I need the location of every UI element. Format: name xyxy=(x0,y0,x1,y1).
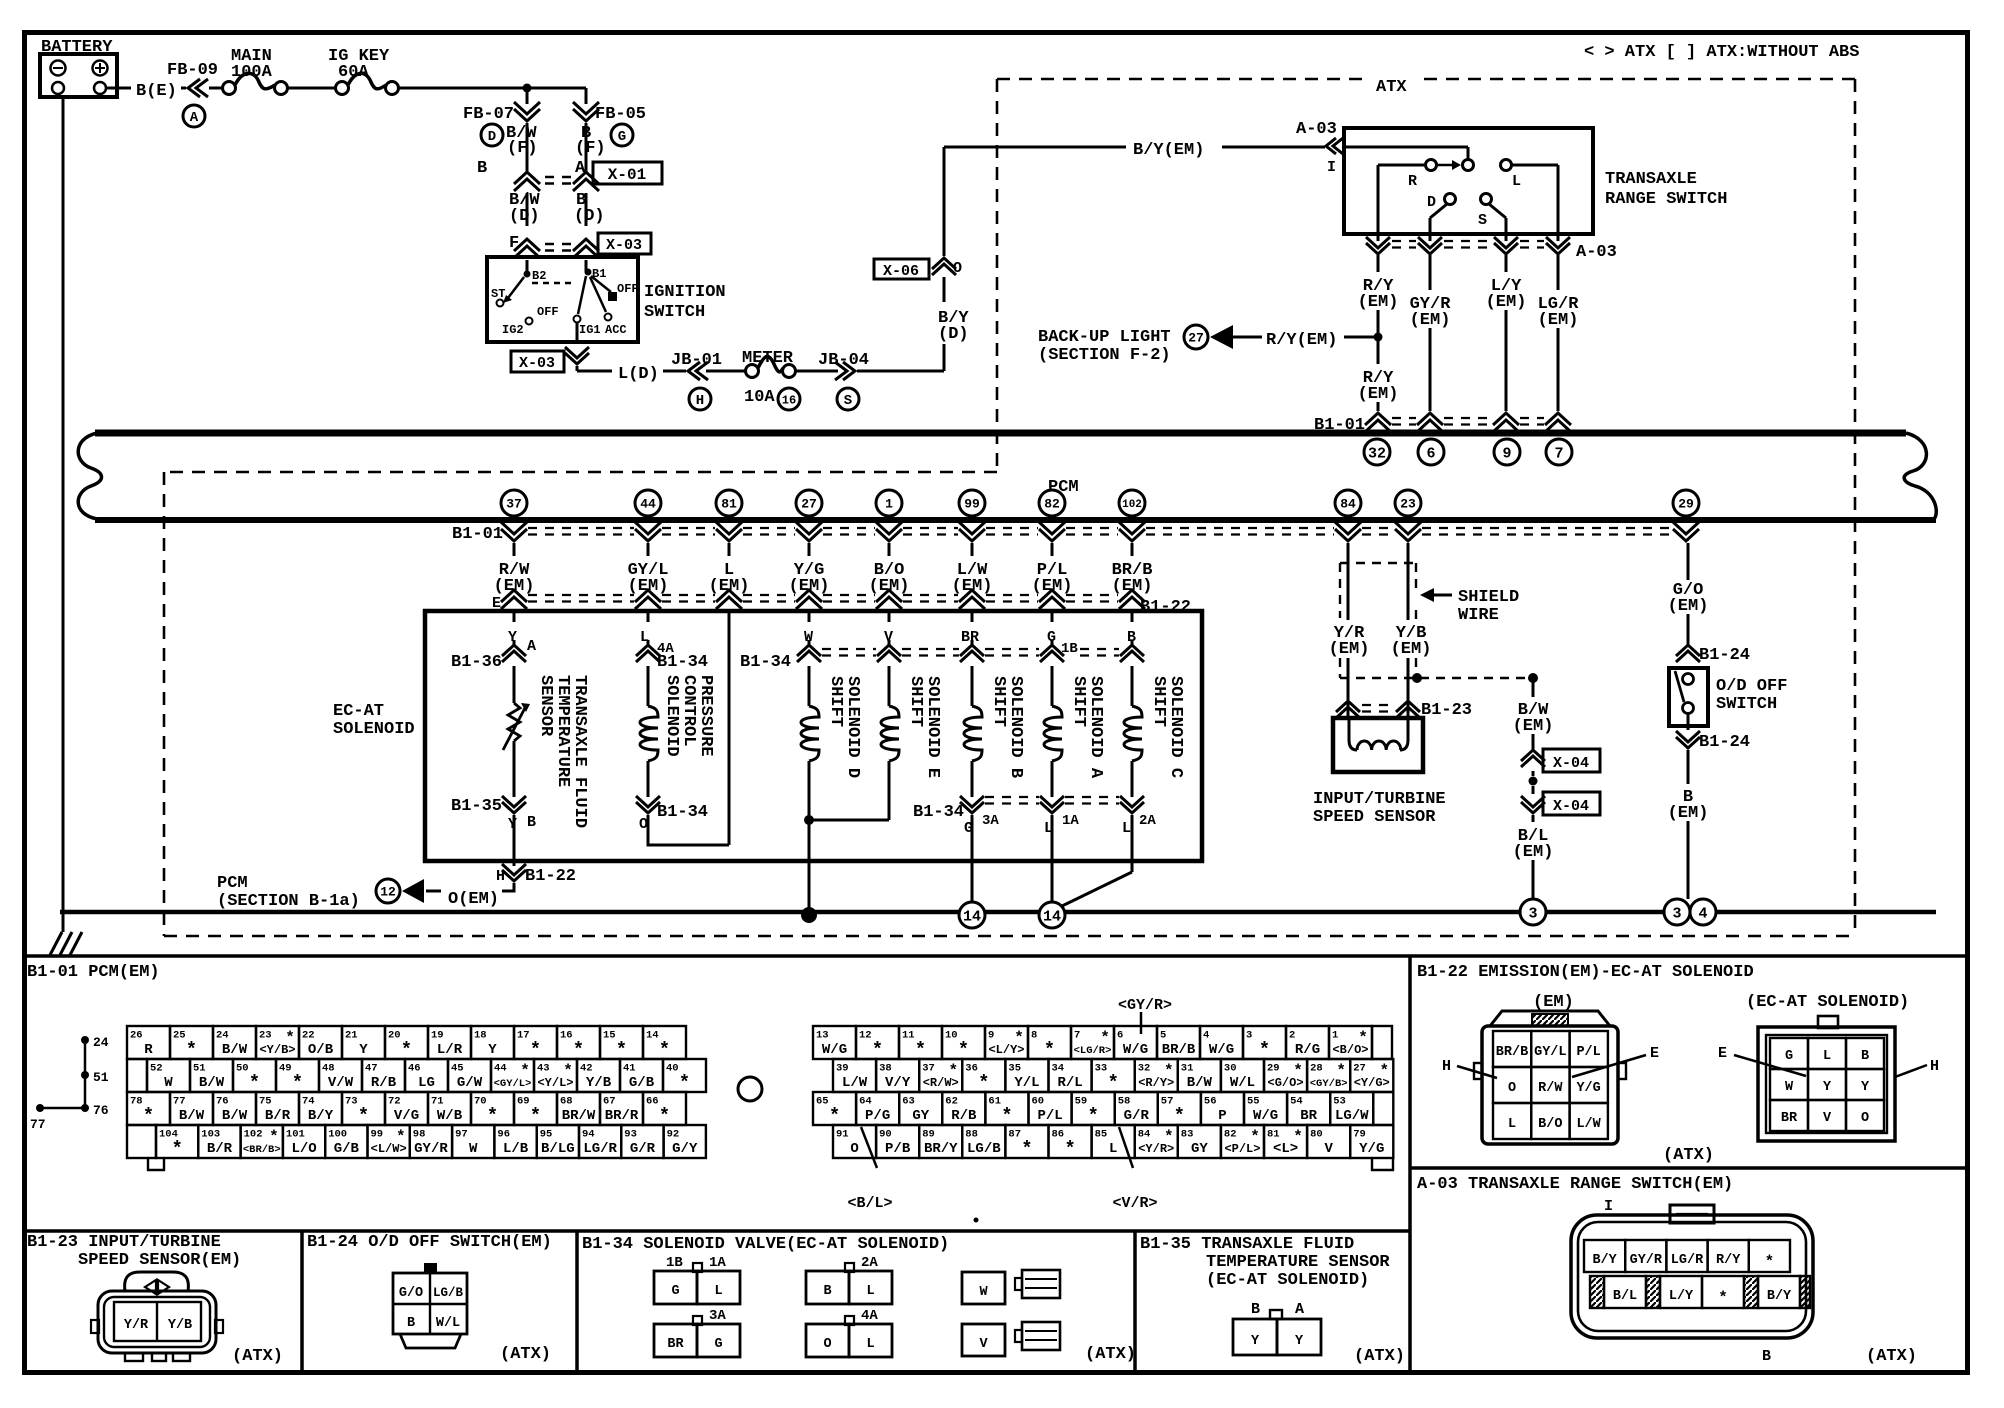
svg-text:*: * xyxy=(401,1039,412,1061)
svg-text:32: 32 xyxy=(1368,445,1386,462)
svg-text:TRANSAXLE: TRANSAXLE xyxy=(1605,170,1697,189)
svg-text:O(EM): O(EM) xyxy=(448,890,499,909)
svg-text:49: 49 xyxy=(279,1063,292,1075)
svg-text:32: 32 xyxy=(1138,1063,1151,1075)
svg-text:68: 68 xyxy=(560,1096,573,1108)
svg-text:B1-22 EMISSION(EM)-EC-AT SOLEN: B1-22 EMISSION(EM)-EC-AT SOLENOID xyxy=(1417,963,1754,982)
svg-text:98: 98 xyxy=(413,1129,426,1141)
svg-text:66: 66 xyxy=(646,1096,659,1108)
svg-text:29: 29 xyxy=(1678,497,1694,512)
svg-text:H: H xyxy=(696,393,704,409)
svg-text:G/R: G/R xyxy=(1124,1108,1150,1124)
svg-text:B1-34 SOLENOID VALVE(EC-AT SOL: B1-34 SOLENOID VALVE(EC-AT SOLENOID) xyxy=(582,1235,949,1254)
svg-text:L: L xyxy=(1512,173,1521,190)
svg-text:3: 3 xyxy=(1672,905,1681,922)
svg-text:*: * xyxy=(487,1105,498,1127)
svg-text:Y: Y xyxy=(1295,1334,1304,1349)
svg-text:R/L: R/L xyxy=(1057,1075,1082,1091)
svg-text:1: 1 xyxy=(885,497,893,512)
svg-text:92: 92 xyxy=(667,1129,680,1141)
svg-text:V: V xyxy=(979,1337,988,1352)
svg-text:*: * xyxy=(573,1039,584,1061)
svg-text:17: 17 xyxy=(517,1030,530,1042)
svg-text:<B/O>: <B/O> xyxy=(1332,1043,1368,1057)
svg-text:L/O: L/O xyxy=(291,1141,316,1157)
svg-text:24: 24 xyxy=(216,1030,229,1042)
svg-text:OFF: OFF xyxy=(537,305,559,319)
svg-text:LG/B: LG/B xyxy=(967,1141,1001,1157)
svg-text:D: D xyxy=(488,129,496,145)
svg-text:27: 27 xyxy=(1353,1063,1366,1075)
svg-text:*: * xyxy=(1044,1039,1055,1061)
svg-text:LG/R: LG/R xyxy=(583,1141,617,1157)
svg-text:57: 57 xyxy=(1161,1096,1174,1108)
svg-text:E: E xyxy=(1650,1045,1659,1062)
svg-text:(EM): (EM) xyxy=(1329,640,1370,659)
svg-text:L: L xyxy=(1823,1049,1831,1064)
svg-text:39: 39 xyxy=(836,1063,849,1075)
svg-text:*: * xyxy=(915,1039,926,1061)
svg-text:B/W: B/W xyxy=(222,1042,248,1058)
svg-text:9: 9 xyxy=(1502,445,1511,462)
svg-text:(EM): (EM) xyxy=(709,577,750,596)
svg-text:(EM): (EM) xyxy=(1358,385,1399,404)
svg-text:G: G xyxy=(714,1337,722,1352)
svg-text:<GY/L>: <GY/L> xyxy=(494,1078,532,1090)
svg-text:B/Y(EM): B/Y(EM) xyxy=(1133,141,1204,160)
svg-text:(EM): (EM) xyxy=(1513,717,1554,736)
svg-text:R/Y: R/Y xyxy=(1716,1253,1741,1268)
svg-text:B1-34: B1-34 xyxy=(913,803,964,822)
svg-text:40: 40 xyxy=(666,1063,679,1075)
svg-text:FB-09: FB-09 xyxy=(167,61,218,80)
svg-text:LG: LG xyxy=(418,1075,435,1091)
svg-text:B/Y: B/Y xyxy=(1767,1289,1792,1304)
svg-text:*: * xyxy=(1064,1138,1075,1160)
svg-text:29: 29 xyxy=(1267,1063,1280,1075)
svg-text:B(E): B(E) xyxy=(136,82,177,101)
svg-text:B: B xyxy=(527,814,536,831)
svg-text:10A: 10A xyxy=(744,388,775,407)
svg-text:85: 85 xyxy=(1095,1129,1108,1141)
svg-text:L: L xyxy=(1122,820,1131,837)
svg-text:L(D): L(D) xyxy=(618,365,659,384)
svg-text:D: D xyxy=(1427,194,1436,211)
svg-text:R/B: R/B xyxy=(951,1108,977,1124)
svg-text:81: 81 xyxy=(721,497,737,512)
svg-text:<Y/L>: <Y/L> xyxy=(537,1076,573,1090)
svg-text:(EM): (EM) xyxy=(869,577,910,596)
svg-text:O: O xyxy=(1861,1111,1869,1126)
svg-text:*: * xyxy=(1718,1289,1728,1307)
svg-text:9: 9 xyxy=(988,1030,994,1042)
svg-text:<Y/G>: <Y/G> xyxy=(1354,1076,1390,1090)
svg-text:37: 37 xyxy=(506,497,522,512)
svg-text:7: 7 xyxy=(1074,1030,1080,1042)
svg-text:Y: Y xyxy=(359,1042,368,1058)
svg-text:(EM): (EM) xyxy=(1112,577,1153,596)
svg-text:SWITCH: SWITCH xyxy=(1716,695,1777,714)
svg-text:70: 70 xyxy=(474,1096,487,1108)
svg-text:6: 6 xyxy=(1426,445,1435,462)
svg-text:Y/G: Y/G xyxy=(1576,1081,1600,1096)
svg-text:44: 44 xyxy=(640,497,656,512)
svg-text:B/R: B/R xyxy=(265,1108,291,1124)
svg-text:27: 27 xyxy=(801,497,817,512)
svg-text:(EC-AT SOLENOID): (EC-AT SOLENOID) xyxy=(1746,993,1909,1012)
svg-text:*: * xyxy=(1259,1039,1270,1061)
svg-text:21: 21 xyxy=(345,1030,358,1042)
svg-text:(D): (D) xyxy=(509,207,540,226)
svg-text:B1-34: B1-34 xyxy=(740,653,791,672)
svg-text:G/B: G/B xyxy=(629,1075,655,1091)
svg-text:4: 4 xyxy=(1203,1030,1209,1042)
svg-text:<L/Y>: <L/Y> xyxy=(988,1043,1024,1057)
svg-text:76: 76 xyxy=(216,1096,229,1108)
svg-text:(EM): (EM) xyxy=(1410,311,1451,330)
svg-text:W/B: W/B xyxy=(437,1108,463,1124)
svg-text:B/O: B/O xyxy=(1538,1117,1562,1132)
svg-text:38: 38 xyxy=(879,1063,892,1075)
svg-text:10: 10 xyxy=(945,1030,958,1042)
svg-text:B: B xyxy=(1762,1348,1771,1365)
svg-text:B2: B2 xyxy=(532,269,546,283)
svg-text:63: 63 xyxy=(902,1096,915,1108)
svg-text:(EM): (EM) xyxy=(1513,843,1554,862)
svg-text:BR: BR xyxy=(1300,1108,1317,1124)
svg-text:14: 14 xyxy=(963,908,981,925)
svg-text:78: 78 xyxy=(130,1096,143,1108)
svg-text:58: 58 xyxy=(1118,1096,1131,1108)
svg-text:V/G: V/G xyxy=(394,1108,419,1124)
svg-text:B/W: B/W xyxy=(199,1075,225,1091)
svg-text:R/W: R/W xyxy=(1538,1081,1563,1096)
svg-text:B: B xyxy=(1251,1301,1260,1318)
svg-text:97: 97 xyxy=(455,1129,468,1141)
svg-text:<V/R>: <V/R> xyxy=(1112,1195,1157,1212)
svg-text:*: * xyxy=(530,1105,541,1127)
svg-text:43: 43 xyxy=(537,1063,550,1075)
svg-text:LG/R: LG/R xyxy=(1671,1253,1704,1268)
svg-text:22: 22 xyxy=(302,1030,315,1042)
svg-text:(ATX): (ATX) xyxy=(500,1345,551,1364)
svg-text:V: V xyxy=(1324,1141,1333,1157)
svg-text:A-03: A-03 xyxy=(1296,120,1337,139)
svg-text:42: 42 xyxy=(580,1063,593,1075)
svg-text:B: B xyxy=(477,159,487,178)
svg-text:H: H xyxy=(1930,1058,1939,1075)
svg-text:2: 2 xyxy=(1289,1030,1295,1042)
svg-text:4A: 4A xyxy=(861,1308,878,1324)
svg-text:46: 46 xyxy=(408,1063,421,1075)
svg-text:20: 20 xyxy=(388,1030,401,1042)
svg-text:P/L: P/L xyxy=(1576,1045,1600,1060)
svg-text:P/G: P/G xyxy=(865,1108,890,1124)
svg-text:33: 33 xyxy=(1095,1063,1108,1075)
svg-text:(D): (D) xyxy=(938,325,969,344)
svg-text:O: O xyxy=(823,1337,831,1352)
svg-text:*: * xyxy=(530,1039,541,1061)
svg-text:67: 67 xyxy=(603,1096,616,1108)
svg-text:*: * xyxy=(292,1072,303,1094)
svg-text:95: 95 xyxy=(540,1129,553,1141)
svg-text:BR/R: BR/R xyxy=(605,1108,639,1124)
svg-text:59: 59 xyxy=(1075,1096,1088,1108)
svg-text:B/L: B/L xyxy=(1613,1289,1637,1304)
svg-text:*: * xyxy=(1021,1138,1032,1160)
svg-text:1A: 1A xyxy=(709,1255,726,1271)
svg-text:*: * xyxy=(143,1105,154,1127)
svg-text:L: L xyxy=(1109,1141,1117,1157)
svg-text:W/G: W/G xyxy=(1123,1042,1148,1058)
svg-text:INPUT/TURBINE: INPUT/TURBINE xyxy=(1313,790,1446,809)
svg-text:A: A xyxy=(527,638,536,655)
svg-text:28: 28 xyxy=(1310,1063,1323,1075)
svg-text:96: 96 xyxy=(497,1129,510,1141)
svg-text:*: * xyxy=(616,1039,627,1061)
svg-text:77: 77 xyxy=(30,1117,46,1132)
svg-text:34: 34 xyxy=(1052,1063,1065,1075)
svg-text:BR/W: BR/W xyxy=(562,1108,596,1124)
svg-text:Y: Y xyxy=(488,1042,497,1058)
svg-text:31: 31 xyxy=(1181,1063,1194,1075)
svg-text:*: * xyxy=(1087,1105,1098,1127)
svg-text:(F): (F) xyxy=(575,139,606,158)
svg-text:54: 54 xyxy=(1290,1096,1303,1108)
svg-text:(EC-AT SOLENOID): (EC-AT SOLENOID) xyxy=(1206,1271,1369,1290)
svg-text:(ATX): (ATX) xyxy=(232,1347,283,1366)
svg-text:23: 23 xyxy=(1400,497,1416,512)
svg-text:SWITCH: SWITCH xyxy=(644,303,705,322)
svg-text:BR: BR xyxy=(1781,1111,1798,1126)
svg-text:R/G: R/G xyxy=(1295,1042,1320,1058)
svg-text:*: * xyxy=(659,1105,670,1127)
svg-text:93: 93 xyxy=(624,1129,637,1141)
svg-text:G/R: G/R xyxy=(630,1141,656,1157)
svg-text:(SECTION B-1a): (SECTION B-1a) xyxy=(217,892,360,911)
svg-text:103: 103 xyxy=(201,1129,220,1141)
svg-text:<GY/B>: <GY/B> xyxy=(1310,1078,1348,1090)
svg-text:GY/R: GY/R xyxy=(414,1141,448,1157)
svg-text:87: 87 xyxy=(1008,1129,1021,1141)
svg-text:62: 62 xyxy=(945,1096,958,1108)
svg-text:O: O xyxy=(850,1141,858,1157)
svg-text:A-03 TRANSAXLE RANGE SWITCH(EM: A-03 TRANSAXLE RANGE SWITCH(EM) xyxy=(1417,1175,1733,1194)
svg-text:V/Y: V/Y xyxy=(885,1075,911,1091)
svg-text:60: 60 xyxy=(1032,1096,1045,1108)
svg-text:B1-34: B1-34 xyxy=(657,653,708,672)
svg-text:1A: 1A xyxy=(1062,813,1079,829)
svg-text:V/W: V/W xyxy=(328,1075,354,1091)
svg-text:11: 11 xyxy=(902,1030,915,1042)
svg-text:I: I xyxy=(1604,1198,1613,1215)
svg-text:<B/L>: <B/L> xyxy=(847,1195,892,1212)
svg-text:7: 7 xyxy=(1554,445,1563,462)
svg-text:(EM): (EM) xyxy=(1358,293,1399,312)
svg-text:(SECTION F-2): (SECTION F-2) xyxy=(1038,346,1171,365)
svg-text:Y: Y xyxy=(1823,1080,1832,1095)
svg-text:76: 76 xyxy=(93,1103,109,1118)
svg-text:G/O: G/O xyxy=(399,1286,423,1301)
svg-text:12: 12 xyxy=(380,885,396,900)
svg-text:L: L xyxy=(866,1337,874,1352)
svg-text:G/Y: G/Y xyxy=(672,1141,698,1157)
svg-text:P: P xyxy=(1218,1108,1226,1124)
svg-text:SPEED SENSOR(EM): SPEED SENSOR(EM) xyxy=(78,1251,241,1270)
svg-text:A: A xyxy=(1295,1301,1304,1318)
svg-text:(EM): (EM) xyxy=(952,577,993,596)
svg-text:BR/Y: BR/Y xyxy=(924,1141,958,1157)
svg-text:L/B: L/B xyxy=(503,1141,529,1157)
svg-text:89: 89 xyxy=(922,1129,935,1141)
svg-text:B/W: B/W xyxy=(179,1108,205,1124)
svg-text:<LG/R>: <LG/R> xyxy=(1074,1045,1112,1057)
svg-text:Y/B: Y/B xyxy=(586,1075,612,1091)
svg-text:B1-35 TRANSAXLE FLUID: B1-35 TRANSAXLE FLUID xyxy=(1140,1235,1354,1254)
svg-text:19: 19 xyxy=(431,1030,444,1042)
svg-text:X-04: X-04 xyxy=(1553,755,1589,772)
svg-text:W: W xyxy=(164,1075,173,1091)
svg-text:R: R xyxy=(144,1042,153,1058)
svg-text:47: 47 xyxy=(365,1063,378,1075)
svg-text:< > ATX [ ] ATX:WITHOUT ABS: < > ATX [ ] ATX:WITHOUT ABS xyxy=(1584,43,1859,62)
svg-text:Y/B: Y/B xyxy=(168,1318,192,1333)
svg-text:GY/R: GY/R xyxy=(1630,1253,1663,1268)
svg-text:G: G xyxy=(671,1284,679,1299)
svg-text:Y: Y xyxy=(1861,1080,1870,1095)
svg-text:*: * xyxy=(659,1039,670,1061)
svg-text:JB-01: JB-01 xyxy=(671,351,722,370)
svg-text:(EM): (EM) xyxy=(628,577,669,596)
svg-text:3A: 3A xyxy=(982,813,999,829)
svg-text:I: I xyxy=(1327,159,1336,176)
svg-text:OFF: OFF xyxy=(617,282,639,296)
svg-text:4: 4 xyxy=(1698,905,1707,922)
svg-text:B1-01 PCM(EM): B1-01 PCM(EM) xyxy=(27,963,160,982)
svg-text:E: E xyxy=(1718,1045,1727,1062)
svg-text:37: 37 xyxy=(922,1063,935,1075)
svg-text:83: 83 xyxy=(1181,1129,1194,1141)
svg-text:O: O xyxy=(639,816,648,833)
svg-text:14: 14 xyxy=(1043,908,1061,925)
svg-text:102: 102 xyxy=(244,1129,263,1141)
svg-text:(ATX): (ATX) xyxy=(1663,1146,1714,1165)
svg-text:FB-05: FB-05 xyxy=(595,105,646,124)
svg-text:*: * xyxy=(829,1105,840,1127)
svg-text:L/W: L/W xyxy=(842,1075,868,1091)
svg-text:X-06: X-06 xyxy=(883,263,919,280)
svg-text:B1-24 O/D OFF SWITCH(EM): B1-24 O/D OFF SWITCH(EM) xyxy=(307,1233,552,1252)
svg-text:Y: Y xyxy=(508,816,517,833)
svg-text:V: V xyxy=(1823,1111,1832,1126)
svg-text:PRESSURECONTROLSOLENOID: PRESSURECONTROLSOLENOID xyxy=(662,675,715,757)
svg-text:IGNITION: IGNITION xyxy=(644,283,726,302)
svg-text:15: 15 xyxy=(603,1030,616,1042)
svg-text:W/L: W/L xyxy=(1230,1075,1255,1091)
svg-text:B: B xyxy=(823,1284,831,1299)
svg-text:H: H xyxy=(1442,1058,1451,1075)
svg-text:B1-24: B1-24 xyxy=(1699,733,1750,752)
svg-text:S: S xyxy=(1478,212,1487,229)
svg-text:B/W: B/W xyxy=(222,1108,248,1124)
svg-text:G/B: G/B xyxy=(334,1141,360,1157)
svg-text:*: * xyxy=(1174,1105,1185,1127)
svg-text:94: 94 xyxy=(582,1129,595,1141)
svg-text:50: 50 xyxy=(236,1063,249,1075)
svg-text:77: 77 xyxy=(173,1096,186,1108)
svg-text:99: 99 xyxy=(964,497,980,512)
svg-text:13: 13 xyxy=(816,1030,829,1042)
svg-text:BR: BR xyxy=(961,629,979,646)
svg-text:*: * xyxy=(958,1039,969,1061)
svg-text:82: 82 xyxy=(1224,1129,1237,1141)
svg-text:B1-01: B1-01 xyxy=(452,525,503,544)
svg-text:Y/L: Y/L xyxy=(1014,1075,1039,1091)
svg-text:BR/B: BR/B xyxy=(1162,1042,1196,1058)
svg-text:(EM): (EM) xyxy=(494,577,535,596)
svg-text:RANGE SWITCH: RANGE SWITCH xyxy=(1605,190,1727,209)
svg-text:(EM): (EM) xyxy=(789,577,830,596)
svg-text:W: W xyxy=(979,1285,988,1300)
svg-text:A-03: A-03 xyxy=(1576,243,1617,262)
svg-text:BACK-UP LIGHT: BACK-UP LIGHT xyxy=(1038,328,1171,347)
svg-text:L/W: L/W xyxy=(1576,1117,1601,1132)
svg-text:X-04: X-04 xyxy=(1553,798,1589,815)
svg-text:48: 48 xyxy=(322,1063,335,1075)
svg-text:R: R xyxy=(1408,173,1417,190)
svg-text:<Y/R>: <Y/R> xyxy=(1138,1142,1174,1156)
svg-text:X-03: X-03 xyxy=(519,355,555,372)
svg-text:<Y/B>: <Y/B> xyxy=(259,1043,295,1057)
svg-text:B1-22: B1-22 xyxy=(525,867,576,886)
svg-text:IG1: IG1 xyxy=(579,323,601,337)
svg-text:91: 91 xyxy=(836,1129,849,1141)
svg-text:23: 23 xyxy=(259,1030,272,1042)
svg-text:*: * xyxy=(186,1039,197,1061)
svg-text:B: B xyxy=(1861,1049,1869,1064)
svg-text:Y/R: Y/R xyxy=(124,1318,149,1333)
svg-text:45: 45 xyxy=(451,1063,464,1075)
svg-text:84: 84 xyxy=(1138,1129,1151,1141)
svg-text:<R/Y>: <R/Y> xyxy=(1138,1076,1174,1090)
svg-text:WIRE: WIRE xyxy=(1458,606,1499,625)
svg-text:24: 24 xyxy=(93,1035,109,1050)
svg-text:SHIELD: SHIELD xyxy=(1458,588,1519,607)
svg-text:51: 51 xyxy=(93,1070,109,1085)
svg-text:ACC: ACC xyxy=(605,323,627,337)
svg-text:79: 79 xyxy=(1353,1129,1366,1141)
svg-text:3: 3 xyxy=(1528,905,1537,922)
svg-text:81: 81 xyxy=(1267,1129,1280,1141)
svg-text:16: 16 xyxy=(782,393,796,407)
svg-text:S: S xyxy=(844,393,852,409)
svg-text:B/W: B/W xyxy=(1187,1075,1213,1091)
svg-text:69: 69 xyxy=(517,1096,530,1108)
svg-text:*: * xyxy=(358,1105,369,1127)
svg-text:PCM: PCM xyxy=(217,874,248,893)
svg-text:2A: 2A xyxy=(861,1255,878,1271)
svg-text:99: 99 xyxy=(371,1129,384,1141)
svg-text:36: 36 xyxy=(965,1063,978,1075)
svg-text:W: W xyxy=(469,1141,478,1157)
svg-text:(EM): (EM) xyxy=(1533,993,1574,1012)
svg-text:B/R: B/R xyxy=(207,1141,233,1157)
svg-text:5: 5 xyxy=(1160,1030,1166,1042)
svg-text:L/Y: L/Y xyxy=(1669,1289,1694,1304)
svg-text:(EM): (EM) xyxy=(1486,293,1527,312)
svg-text:G/W: G/W xyxy=(457,1075,483,1091)
svg-text:41: 41 xyxy=(623,1063,636,1075)
